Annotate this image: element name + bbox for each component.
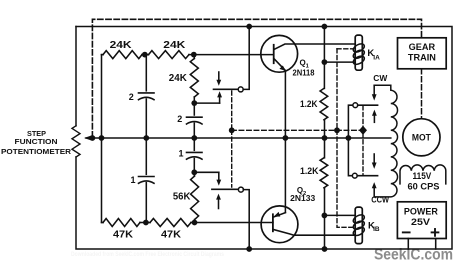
svg-text:TRAIN: TRAIN	[408, 52, 436, 63]
svg-text:1.2K: 1.2K	[300, 166, 319, 176]
svg-text:47K: 47K	[113, 228, 133, 240]
svg-text:IB: IB	[373, 226, 380, 233]
svg-text:2N118: 2N118	[293, 68, 316, 77]
svg-text:2N133: 2N133	[290, 194, 316, 203]
svg-text:25V: 25V	[411, 217, 431, 228]
svg-text:GEAR: GEAR	[409, 42, 436, 53]
svg-text:24K: 24K	[169, 72, 187, 84]
svg-text:CW: CW	[373, 73, 388, 83]
svg-text:IA: IA	[373, 54, 380, 61]
svg-text:1: 1	[130, 175, 135, 185]
svg-text:24K: 24K	[110, 39, 132, 51]
svg-text:Downloaded from SeekIC.com Fre: Downloaded from SeekIC.com Free Electron…	[71, 251, 224, 258]
svg-text:24K: 24K	[163, 39, 185, 51]
svg-text:2: 2	[177, 114, 182, 124]
svg-text:2: 2	[129, 92, 134, 102]
svg-text:POTENTIOMETER: POTENTIOMETER	[1, 147, 72, 156]
svg-text:47K: 47K	[161, 228, 181, 240]
svg-text:MOT: MOT	[412, 133, 431, 143]
svg-text:1.2K: 1.2K	[300, 99, 318, 109]
svg-text:FUNCTION: FUNCTION	[15, 137, 58, 146]
svg-text:115V: 115V	[413, 171, 432, 181]
svg-text:CCW: CCW	[371, 194, 390, 204]
svg-text:60 CPS: 60 CPS	[408, 181, 440, 191]
svg-text:56K: 56K	[173, 192, 191, 203]
svg-text:1: 1	[178, 149, 183, 159]
